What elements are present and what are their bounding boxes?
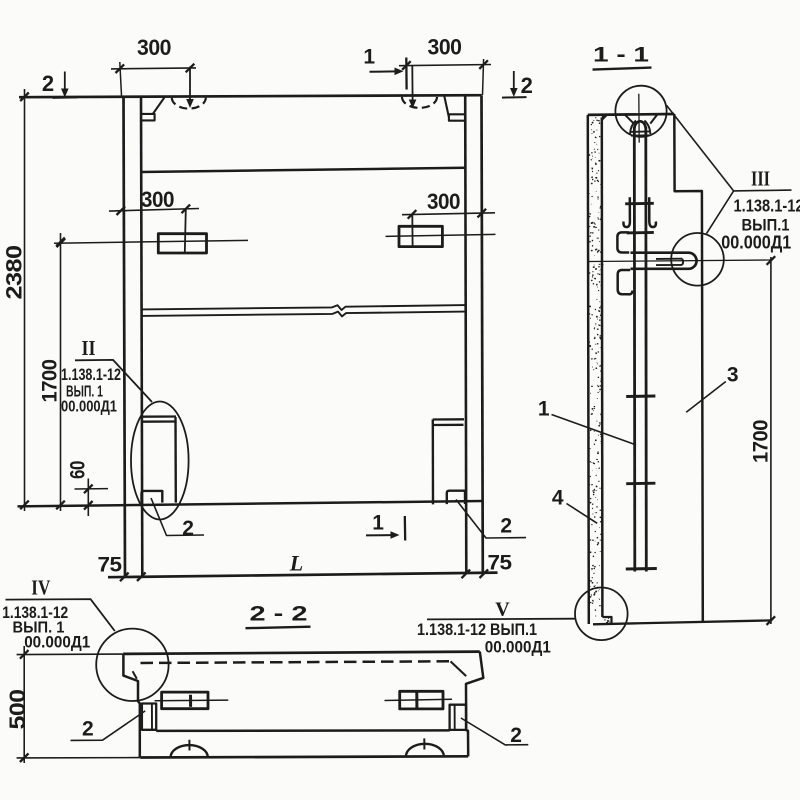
svg-text:ВЫП.1: ВЫП.1 (742, 215, 790, 234)
front elevation: mid double line upper with break jog (141, 305, 465, 310)
front elevation: bottom edge / L dimension line (108, 573, 498, 578)
svg-text:300: 300 (137, 35, 171, 60)
left edge channel: bottom block (142, 491, 163, 503)
ladder rung 3 (626, 567, 657, 570)
section 2-2: right end profile (466, 652, 483, 757)
top-left corner chamfer (153, 97, 165, 113)
svg-text:1: 1 (363, 46, 375, 69)
front elevation: right outer edge (482, 95, 483, 573)
leader 2 (section 2-2 left) (71, 711, 146, 741)
leader 4 (slab) (567, 504, 598, 524)
section 1-1: slab inner face (601, 117, 604, 617)
detail II leader (75, 360, 152, 402)
dimension 300 mid-left (109, 209, 199, 212)
front elevation: mid double line lower with break jog (141, 312, 465, 317)
svg-text:00.000Д1: 00.000Д1 (61, 399, 117, 416)
top-right corner tab (449, 114, 465, 120)
section 1-1: slab outer face (left) (588, 115, 589, 624)
front elevation: horizontal joint line (141, 168, 465, 172)
detail IV leader (6, 599, 115, 631)
channel end view (left) (142, 704, 156, 730)
front elevation: lower edge line of recessed field (18, 501, 483, 506)
lifting loop bar: left wire (633, 127, 636, 572)
svg-text:1.138.1-12: 1.138.1-12 (61, 365, 121, 384)
bottom lifting loop arc (right) (406, 744, 444, 757)
detail II oval (131, 402, 189, 520)
svg-text:1700: 1700 (38, 359, 62, 402)
leader 2 (section 2-2 right) (461, 718, 528, 745)
section 1-1: slab foot (602, 617, 611, 624)
section 2-2: left end profile (123, 654, 139, 757)
embedded plate M2 (right) (399, 226, 442, 246)
left loop arrow (189, 67, 191, 100)
front elevation: right inner edge (465, 95, 466, 573)
dimension 75 bottom-left ticks (120, 573, 129, 582)
dimension 60 (87, 479, 89, 517)
leader 2 (left channel) (151, 498, 204, 536)
section 2-2: top edge (123, 652, 480, 654)
section 1-1: top edge (588, 113, 675, 117)
left lifting loop (dashed arc) (172, 98, 206, 109)
left edge channel: vertical flange (174, 417, 177, 503)
right edge channel: top tab (433, 418, 464, 421)
left end notch tick (133, 671, 137, 678)
section 2-2: bottom edge (140, 756, 468, 757)
leader 3 (panel) (686, 382, 726, 413)
S-hook lower (618, 270, 633, 294)
svg-text:1.138.1-12: 1.138.1-12 (734, 196, 800, 216)
right lifting loop (dashed arc) (402, 97, 437, 108)
front elevation: top edge of panel (19, 95, 482, 97)
section 2-2: rib step line (156, 729, 450, 732)
stirrup hook verticals (623, 197, 629, 227)
leaders to detail III note (667, 105, 792, 191)
channel end view (right) (450, 705, 466, 730)
ladder rung 2 (626, 482, 655, 485)
section 1-1: rib outline (674, 114, 703, 622)
plate M1 centerline (54, 240, 248, 243)
svg-text:V: V (495, 599, 510, 621)
top-left corner tab (141, 114, 155, 121)
svg-text:L: L (289, 551, 303, 576)
front elevation: left outer edge (124, 96, 126, 577)
svg-text:00.000Д1: 00.000Д1 (721, 233, 791, 253)
stirrup rung lower (627, 231, 654, 234)
plate M2 centerline (386, 234, 496, 236)
svg-text:2: 2 (510, 724, 521, 747)
svg-text:75: 75 (488, 551, 513, 575)
ladder rung 1 (626, 395, 655, 398)
svg-text:60: 60 (67, 461, 90, 479)
svg-text:IV: IV (31, 576, 50, 600)
dimension 300 mid-right (402, 213, 495, 215)
svg-text:2: 2 (521, 73, 533, 98)
embedded plate (left, section 2-2) (162, 692, 208, 709)
loop cap (634, 121, 646, 128)
svg-text:00.000Д1: 00.000Д1 (485, 637, 551, 656)
svg-text:1 - 1: 1 - 1 (593, 43, 649, 67)
dimension 1700 (left inner) (60, 233, 62, 511)
left edge channel: top tab (141, 415, 176, 418)
section 2-2: hidden edge (dashed) (141, 661, 452, 663)
bottom lifting loop arc (left) (171, 745, 208, 757)
svg-text:3: 3 (727, 363, 738, 386)
dimension 300 top-right (399, 65, 491, 66)
concrete stipple texture (589, 117, 611, 623)
top-right corner chamfer (444, 96, 448, 116)
loop recess dip right (650, 114, 657, 123)
loop outer cap arcs (630, 121, 636, 135)
svg-text:75: 75 (98, 552, 123, 576)
loop axis centerline (638, 94, 640, 143)
section 1-1: bottom edge / extension to 1700 dim (593, 620, 771, 624)
anchor axis centerline (589, 260, 771, 262)
loop recess dip left (625, 115, 634, 124)
dimension 1700 (section 1-1) (770, 257, 772, 624)
svg-text:1: 1 (538, 398, 550, 421)
svg-text:500: 500 (5, 690, 30, 730)
anchor bar with U-bend (631, 253, 697, 269)
svg-text:2380: 2380 (2, 245, 27, 299)
svg-text:1700: 1700 (749, 420, 773, 463)
svg-text:1: 1 (372, 512, 384, 535)
svg-text:2: 2 (500, 515, 511, 538)
right loop arrow (411, 66, 413, 101)
leader 1 (reinforcement unit) (552, 415, 637, 445)
svg-text:300: 300 (141, 187, 174, 212)
svg-text:1.138.1-12 ВЫП.1: 1.138.1-12 ВЫП.1 (417, 620, 537, 639)
svg-text:2 - 2: 2 - 2 (250, 602, 308, 626)
svg-text:300: 300 (428, 35, 462, 60)
anchor inner bend (656, 258, 682, 260)
loop wire end ticks (631, 130, 651, 133)
svg-text:2: 2 (42, 71, 54, 96)
svg-text:4: 4 (552, 486, 564, 509)
dimension 75 bottom-right ticks (462, 570, 471, 579)
right edge channel: vertical flange (432, 419, 435, 504)
svg-text:00.000Д1: 00.000Д1 (24, 633, 90, 651)
S-hook upper (617, 232, 629, 252)
svg-text:2: 2 (82, 717, 93, 740)
stirrup rung upper (625, 202, 654, 205)
svg-text:2: 2 (182, 517, 193, 540)
svg-text:300: 300 (427, 189, 460, 214)
embedded plate (right, section 2-2) (400, 691, 443, 709)
dimension 300 top-left (111, 68, 196, 69)
embedded plate M1 (left) (158, 234, 206, 253)
detail V circle (575, 588, 628, 641)
svg-text:III: III (751, 166, 770, 190)
detail III circle (top) (615, 86, 666, 137)
lifting loop bar: right wire (644, 127, 647, 572)
section 1-1: corner wedge (602, 115, 608, 121)
detail V shelf line (427, 618, 576, 621)
front elevation: left inner edge (141, 96, 142, 576)
detail III circle (bottom) (671, 233, 724, 286)
right end notch diagonal (451, 661, 467, 676)
svg-text:II: II (82, 336, 96, 360)
dimension 2380 (left outer) (24, 89, 26, 511)
detail IV circle (96, 629, 168, 701)
dimension 500 (17, 653, 124, 656)
leader 2 (right channel) (456, 500, 526, 539)
right edge channel: bottom block (447, 491, 465, 504)
